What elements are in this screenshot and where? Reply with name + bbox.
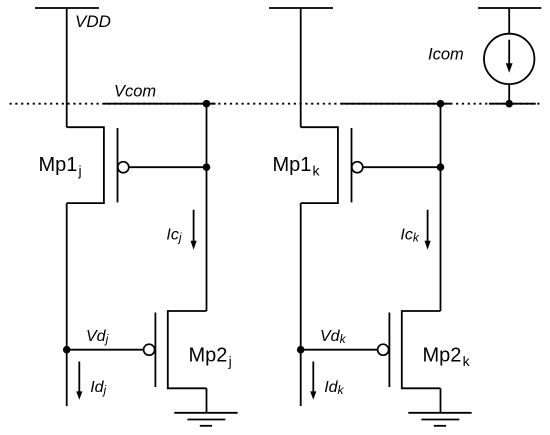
power VDD rail (branch j) [35,7,99,9]
wire Vcom solid segment (branch k) [342,103,451,105]
svg-text:Mp1: Mp1 [273,154,312,176]
svg-text:k: k [463,353,471,369]
wire Mp2j drain to ground [206,388,208,413]
svg-text:Vdj: Vdj [86,328,109,346]
current Idk arrow [312,362,314,393]
transistor Mp2k gate plate [388,313,390,388]
wire Vcom to Mp2k source [440,104,442,311]
wire Mp1j drain down [66,203,68,406]
svg-text:Vcom: Vcom [114,83,156,101]
wire Vdj to Mp2j gate [67,349,144,351]
current Ick arrow [427,210,429,242]
transistor Mp2k body [402,311,441,388]
svg-text:Ick: Ick [400,227,419,245]
svg-text:k: k [313,163,321,179]
transistor Mp2j body [168,311,207,388]
wire Vdk to Mp2k gate [301,349,378,351]
svg-text:Mp2: Mp2 [189,345,228,367]
svg-text:Idk: Idk [324,379,344,397]
wire VDD to Mp1j source [66,8,68,127]
transistor Mp1j gate bubble [118,162,129,173]
junction dot node Vdk [297,346,305,354]
svg-text:Icj: Icj [166,227,181,245]
junction dot Mp1j gate / Ic branch [203,163,211,171]
svg-text:Icom: Icom [428,46,464,64]
wire Icom to Vcom [508,84,510,104]
svg-text:Mp2: Mp2 [423,345,462,367]
ground branch k [408,413,471,426]
junction dot Vcom branch j [203,100,211,108]
junction dot Mp1k gate / Ic branch [437,163,445,171]
power VDD rail (Icom) [478,7,541,9]
transistor Mp1k body [301,127,338,203]
transistor Mp1j body [67,127,104,203]
power VDD rail (branch k) [269,7,333,9]
transistor Mp1j gate plate [117,128,119,202]
transistor Mp2j gate bubble [144,344,155,355]
transistor Mp2j gate plate [154,313,156,388]
current source Icom circle [484,34,534,84]
svg-text:j: j [78,163,82,179]
transistor Mp1k gate bubble [352,162,363,173]
wire Mp2k drain to ground [440,388,442,413]
junction dot Vcom Icom [505,100,513,108]
svg-text:VDD: VDD [75,12,111,31]
current Icj arrow [193,210,195,242]
wire Vcom solid segment (branch j) [104,103,215,105]
wire Vcom solid segment (Icom) [489,103,536,105]
current source Icom arrow [508,40,510,64]
wire Vcom to Mp2j source [206,104,208,311]
wire Mp1j gate to node [129,166,207,168]
wire VDD to Icom source [508,8,510,34]
svg-text:Vdk: Vdk [320,328,347,346]
junction dot node Vdj [63,346,71,354]
current Idj arrow [78,362,80,393]
transistor Mp2k gate bubble [378,344,389,355]
node Vcom dotted net line [10,103,543,105]
wire Mp1k drain down [300,203,302,406]
ground branch j [174,413,237,426]
svg-text:Mp1: Mp1 [39,154,78,176]
junction dot Vcom branch k [437,100,445,108]
svg-text:j: j [228,353,232,369]
wire Mp1k gate to node [363,166,441,168]
transistor Mp1k gate plate [351,128,353,202]
svg-text:Idj: Idj [90,379,106,397]
wire VDD to Mp1k source [300,8,302,127]
